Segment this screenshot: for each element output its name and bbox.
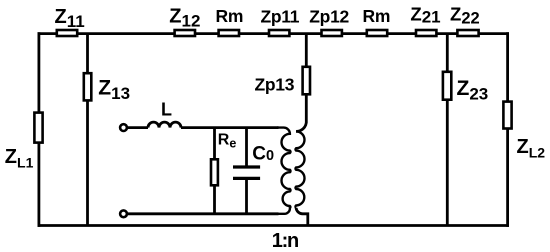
resistor Z23	[443, 72, 451, 100]
svg-text:Z12: Z12	[169, 6, 200, 31]
resistor Rm (right)	[367, 30, 387, 36]
svg-text:C0: C0	[252, 143, 274, 164]
resistor ZL1	[34, 113, 42, 143]
resistor Z22	[457, 30, 478, 36]
wire Re leg	[213, 128, 216, 214]
svg-text:Rm: Rm	[216, 6, 244, 26]
svg-text:Zp11: Zp11	[261, 6, 300, 26]
wire inner top (L to transformer primary)	[127, 126, 149, 129]
wire Z23 shunt leg	[446, 34, 449, 226]
wire inner bottom (port to transformer primary)	[127, 212, 279, 215]
resistor ZL2	[503, 102, 511, 129]
wire bottom rail	[38, 224, 510, 227]
wire Zp13 leg (top rail to transformer secondary)	[296, 34, 306, 132]
svg-text:1:n: 1:n	[272, 230, 298, 252]
svg-text:ZL1: ZL1	[5, 146, 34, 171]
svg-text:Zp13: Zp13	[255, 75, 295, 95]
svg-text:ZL2: ZL2	[517, 136, 546, 161]
svg-text:Z23: Z23	[457, 77, 489, 103]
wire C0 leg upper	[245, 128, 248, 166]
svg-text:Z13: Z13	[98, 77, 130, 103]
svg-text:L: L	[161, 100, 172, 120]
terminal top port circle	[120, 124, 127, 131]
resistor Z12	[175, 30, 195, 36]
resistor Z21	[416, 30, 436, 36]
svg-text:Z11: Z11	[55, 6, 85, 31]
wire right rail	[506, 32, 509, 227]
svg-text:Zp12: Zp12	[309, 6, 349, 26]
svg-text:Rm: Rm	[363, 6, 391, 26]
terminal bottom port circle	[120, 210, 127, 217]
wire left rail	[38, 32, 41, 227]
svg-text:Z21: Z21	[410, 3, 440, 26]
resistor Zp11	[269, 30, 289, 36]
resistor Zp12	[322, 30, 342, 36]
capacitor C0 plates	[233, 167, 260, 178]
transformer secondary winding	[295, 131, 304, 207]
wire Z13 shunt leg	[86, 34, 89, 226]
resistor Re	[211, 159, 218, 185]
resistor Z13	[84, 73, 92, 100]
wire top rail	[38, 32, 510, 35]
svg-text:Re: Re	[218, 132, 237, 151]
resistor Zp13	[303, 67, 310, 95]
inductor L	[148, 122, 181, 127]
svg-text:Z22: Z22	[450, 4, 480, 28]
resistor Z11	[57, 30, 77, 36]
transformer primary winding	[277, 128, 291, 214]
resistor Rm (left)	[219, 30, 239, 36]
wire transformer secondary bottom lead to bottom rail	[296, 208, 308, 226]
wire C0 leg lower	[245, 179, 248, 214]
